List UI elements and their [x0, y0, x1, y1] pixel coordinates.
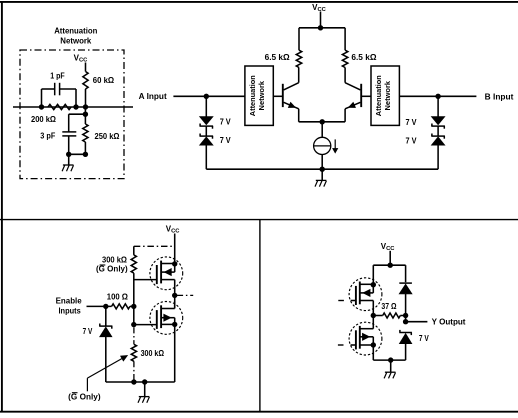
wire between B zeners	[437, 126, 439, 136]
svg-text:Y Output: Y Output	[432, 318, 466, 327]
svg-text:300 kΩ: 300 kΩ	[141, 349, 165, 358]
wire Q6 to rail	[372, 345, 374, 360]
node dot gate junction	[131, 322, 136, 327]
svg-text:7 V: 7 V	[220, 136, 232, 145]
transistor Q1 collector	[284, 68, 299, 90]
node dot bottom right	[83, 152, 88, 157]
diode D1 (to Vcc)	[399, 283, 412, 294]
label Vcc (bottom-left)	[166, 224, 181, 234]
label A Input	[139, 92, 167, 101]
wire Vcc rail (top)	[299, 27, 345, 29]
svg-text:300 kΩ: 300 kΩ	[102, 256, 128, 265]
zener diode 7V A-bottom	[200, 134, 214, 146]
wire ground stem (detail)	[68, 154, 70, 165]
node dot enable	[103, 304, 108, 309]
dash-dot to 300k lower (top)	[133, 327, 135, 344]
resistor 60 kOhm	[83, 72, 88, 90]
svg-text:Attenuation: Attenuation	[54, 26, 97, 35]
wire 60k to line	[85, 89, 87, 107]
svg-text:Attenuation: Attenuation	[374, 75, 383, 116]
wire 300k top stub	[133, 246, 135, 255]
wire gate link upper	[134, 279, 157, 281]
label 300 kOhm lower	[141, 349, 165, 358]
svg-text:37 Ω: 37 Ω	[381, 302, 397, 311]
wire common emitter rail	[299, 121, 345, 123]
label 7 V B-bottom	[406, 137, 418, 146]
label 100 Ohm	[107, 293, 129, 302]
svg-text:Network: Network	[257, 80, 266, 110]
node dot at 60k junction	[83, 104, 88, 109]
wire A input	[173, 95, 245, 97]
ground (bottom-left)	[138, 397, 149, 403]
ground (detail box)	[62, 165, 73, 171]
resistor 300 kOhm upper	[131, 255, 136, 273]
ground (bottom-right)	[384, 372, 395, 378]
wire to current source	[321, 122, 323, 138]
label attenuation network title	[54, 26, 97, 45]
wire lower branch horizontal	[69, 113, 86, 115]
wire D1 to output node	[405, 294, 407, 322]
node dot Q4 source/body	[172, 322, 177, 327]
wire ground stem (bottom-right)	[390, 360, 392, 372]
label (G Only) lower	[68, 392, 101, 401]
svg-text:60 kΩ: 60 kΩ	[93, 76, 115, 85]
transistor Q2 collector	[345, 68, 360, 90]
zener diode 7V enable	[99, 324, 112, 337]
svg-text:7 V: 7 V	[419, 334, 429, 343]
wire B diode stack top	[437, 96, 439, 116]
transistor Q4 n-channel MOSFET	[150, 301, 183, 334]
node dot Y output	[403, 319, 408, 324]
transistor Q1 base bar	[282, 84, 284, 107]
svg-text:1 pF: 1 pF	[50, 71, 65, 80]
svg-text:7 V: 7 V	[83, 327, 93, 336]
label 37 Ohm	[381, 302, 397, 311]
svg-text:3 pF: 3 pF	[40, 131, 55, 140]
wire rail to left 6.5k	[298, 28, 300, 50]
node dot rail at 300k	[131, 379, 136, 384]
zener diode 7V B-bottom	[431, 134, 445, 146]
label Vcc (bottom-right)	[381, 242, 396, 252]
resistor 6.5 kOhm left	[296, 50, 301, 67]
node dot 100R right	[131, 304, 136, 309]
wire Y output	[406, 321, 428, 323]
node dot bottom left	[66, 152, 71, 157]
wire gate link lower	[134, 324, 157, 326]
svg-text:100 Ω: 100 Ω	[107, 293, 129, 302]
wire top rail (bottom-right)	[373, 264, 405, 266]
resistor 200 kOhm	[48, 104, 71, 109]
transistor Q6 n-channel MOSFET	[349, 322, 382, 355]
label 60 kOhm	[93, 76, 115, 85]
wire 300k bottom to gate node	[133, 273, 135, 325]
current source I1	[314, 137, 331, 154]
node dot Q6 bottom	[371, 342, 376, 347]
wire between A zeners	[205, 126, 207, 136]
wire Vcc stem (top)	[320, 12, 322, 28]
label 300 kOhm upper	[102, 256, 128, 265]
wire Q5 to Q6	[372, 316, 374, 329]
svg-text:A Input: A Input	[139, 92, 167, 101]
label B Input	[485, 92, 514, 101]
node A input dot	[204, 94, 209, 99]
node dot ground tap	[388, 357, 393, 362]
wire Vcc stem (bottom-left)	[174, 234, 176, 265]
node dot common emitters	[320, 119, 325, 124]
frame vertical divider (bottom panels)	[259, 220, 261, 412]
svg-text:(G Only): (G Only)	[68, 392, 101, 401]
label 7 V enable	[83, 327, 93, 336]
wire enable input	[87, 305, 112, 307]
ground (top panel)	[315, 180, 326, 186]
label Enable Inputs	[56, 297, 83, 316]
node dot Q3 drain top	[172, 261, 177, 266]
attenuation network block B	[371, 66, 399, 125]
dash-dot link to 300k	[134, 245, 175, 247]
svg-text:Enable: Enable	[56, 297, 83, 306]
wire right vertical top	[405, 265, 407, 282]
node B input dot	[435, 94, 440, 99]
label 6.5 kOhm right	[351, 53, 377, 62]
gate dash stub Q6	[338, 344, 344, 346]
label 7 V B-top	[406, 118, 418, 127]
svg-text:Network: Network	[60, 36, 92, 45]
transistor Q3 p-channel MOSFET	[150, 257, 183, 296]
resistor 100 Ohm	[112, 304, 130, 309]
wire bottom join	[69, 153, 86, 155]
wire stub down from line	[84, 107, 86, 114]
capacitor C 1 pF	[42, 83, 77, 107]
transistor Q5 p-channel MOSFET	[349, 278, 382, 316]
gate dash stub Q5	[338, 300, 344, 302]
resistor 37 Ohm	[373, 313, 405, 318]
node dot Q5 top	[371, 282, 376, 287]
svg-text:7 V: 7 V	[220, 118, 232, 127]
wire current source to rail	[321, 155, 323, 170]
node dot 37R left	[371, 313, 376, 318]
wire rail to Q5	[372, 265, 374, 284]
node dot bottom rail	[320, 167, 325, 172]
frame horizontal divider	[0, 219, 518, 221]
label 3 pF	[40, 131, 55, 140]
wire A diode stack top	[205, 96, 207, 116]
label 6.5 kOhm left	[265, 53, 291, 62]
wire zener branch	[105, 306, 107, 326]
svg-text:200 kΩ: 200 kΩ	[31, 115, 57, 124]
label 1 pF	[50, 71, 65, 80]
node dot rail at ground	[142, 379, 147, 384]
wire ground stem (top)	[321, 169, 323, 180]
wire Vcc stem to 60k	[85, 63, 87, 72]
wire rail to right 6.5k	[344, 28, 346, 50]
resistor 250 kOhm	[83, 114, 88, 154]
svg-text:7 V: 7 V	[406, 137, 418, 146]
label 7 V A-top	[220, 118, 232, 127]
label 200 kOhm	[31, 115, 57, 124]
svg-text:(G Only): (G Only)	[96, 265, 128, 274]
zener diode 7V A-top	[200, 117, 214, 129]
node dot Vcc tap	[388, 263, 393, 268]
wire Vcc stem (bottom-right)	[389, 251, 391, 265]
zener diode 7V output	[399, 330, 412, 344]
dash-dot detail box	[20, 50, 124, 179]
svg-text:6.5 kΩ: 6.5 kΩ	[351, 53, 377, 62]
svg-text:7 V: 7 V	[406, 118, 418, 127]
svg-text:6.5 kΩ: 6.5 kΩ	[265, 53, 291, 62]
wire bottom rail (bottom-left)	[106, 381, 175, 383]
label 7 V output	[419, 334, 429, 343]
wire Q4 source to rail	[174, 324, 176, 382]
transistor Q1 emitter	[284, 102, 299, 122]
transistor Q2 emitter	[345, 102, 360, 122]
attenuation network block A	[245, 66, 273, 125]
zener diode 7V B-top	[431, 117, 445, 129]
node dot right of 200k	[73, 104, 78, 109]
wire zener to rail	[105, 337, 107, 382]
svg-text:250 kΩ: 250 kΩ	[95, 132, 121, 141]
wire 100R to node	[130, 305, 134, 307]
wire box A to base	[273, 95, 282, 97]
node dot Q3 source bottom	[172, 293, 177, 298]
annotation arrow to 300k	[87, 355, 127, 391]
transistor Q2 base bar	[360, 84, 362, 107]
svg-text:Inputs: Inputs	[59, 306, 82, 315]
node dot Vcc rail	[318, 25, 323, 30]
wire Q3 to Q4	[174, 295, 176, 308]
wire box B to base	[362, 95, 371, 97]
wire A diode stack bottom	[205, 145, 207, 169]
wire bottom rail (top panel)	[206, 168, 438, 170]
resistor 6.5 kOhm right	[342, 50, 347, 67]
resistor 300 kOhm lower	[131, 344, 136, 361]
label 7 V A-bottom	[220, 136, 232, 145]
wire main horizontal line y=107	[13, 106, 133, 108]
wire ground stem (bottom-left)	[144, 382, 146, 396]
wire bottom rail (bottom-right)	[373, 359, 405, 361]
label (G Only) upper	[96, 265, 128, 274]
label 250 kOhm	[95, 132, 121, 141]
svg-text:Attenuation: Attenuation	[248, 75, 257, 116]
dash-dot stub right of node	[177, 294, 194, 296]
dash-dot to 300k lower (bottom)	[133, 361, 135, 381]
wire zener to rail (bottom-right)	[405, 344, 407, 360]
current direction arrow	[333, 139, 338, 153]
wire B input	[399, 95, 476, 97]
svg-text:B Input: B Input	[485, 92, 514, 101]
node dot 37R right	[403, 313, 408, 318]
node dot left of 200k	[39, 104, 44, 109]
wire B diode stack bottom	[437, 145, 439, 169]
node dot lower branch	[83, 112, 88, 117]
label Y Output	[432, 318, 466, 327]
label Vcc (top)	[312, 3, 327, 13]
label Vcc (detail box)	[74, 54, 89, 64]
capacitor C 3 pF	[62, 114, 76, 154]
svg-text:Network: Network	[383, 80, 392, 110]
